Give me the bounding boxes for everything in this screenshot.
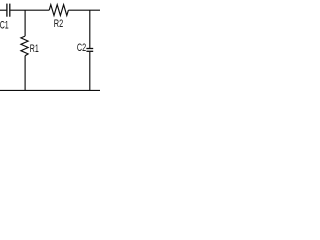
svg-text:C1: C1 [0, 19, 9, 31]
label C1 [0, 19, 9, 31]
svg-text:C2: C2 [77, 42, 86, 54]
wire [0, 9, 6, 11]
label C2 [77, 42, 86, 54]
wire [68, 9, 100, 11]
capacitor C2 [86, 49, 93, 52]
resistor R2 [49, 5, 68, 16]
wire [89, 52, 91, 90]
wire [89, 10, 91, 48]
label R2 [54, 18, 63, 30]
capacitor C1 [7, 4, 10, 17]
svg-text:R2: R2 [54, 18, 63, 30]
wire [10, 9, 49, 11]
label R1 [30, 43, 39, 55]
wire [0, 89, 100, 91]
resistor R1 [21, 36, 28, 56]
wire [24, 56, 26, 90]
wire [24, 10, 26, 36]
svg-text:R1: R1 [30, 43, 39, 55]
